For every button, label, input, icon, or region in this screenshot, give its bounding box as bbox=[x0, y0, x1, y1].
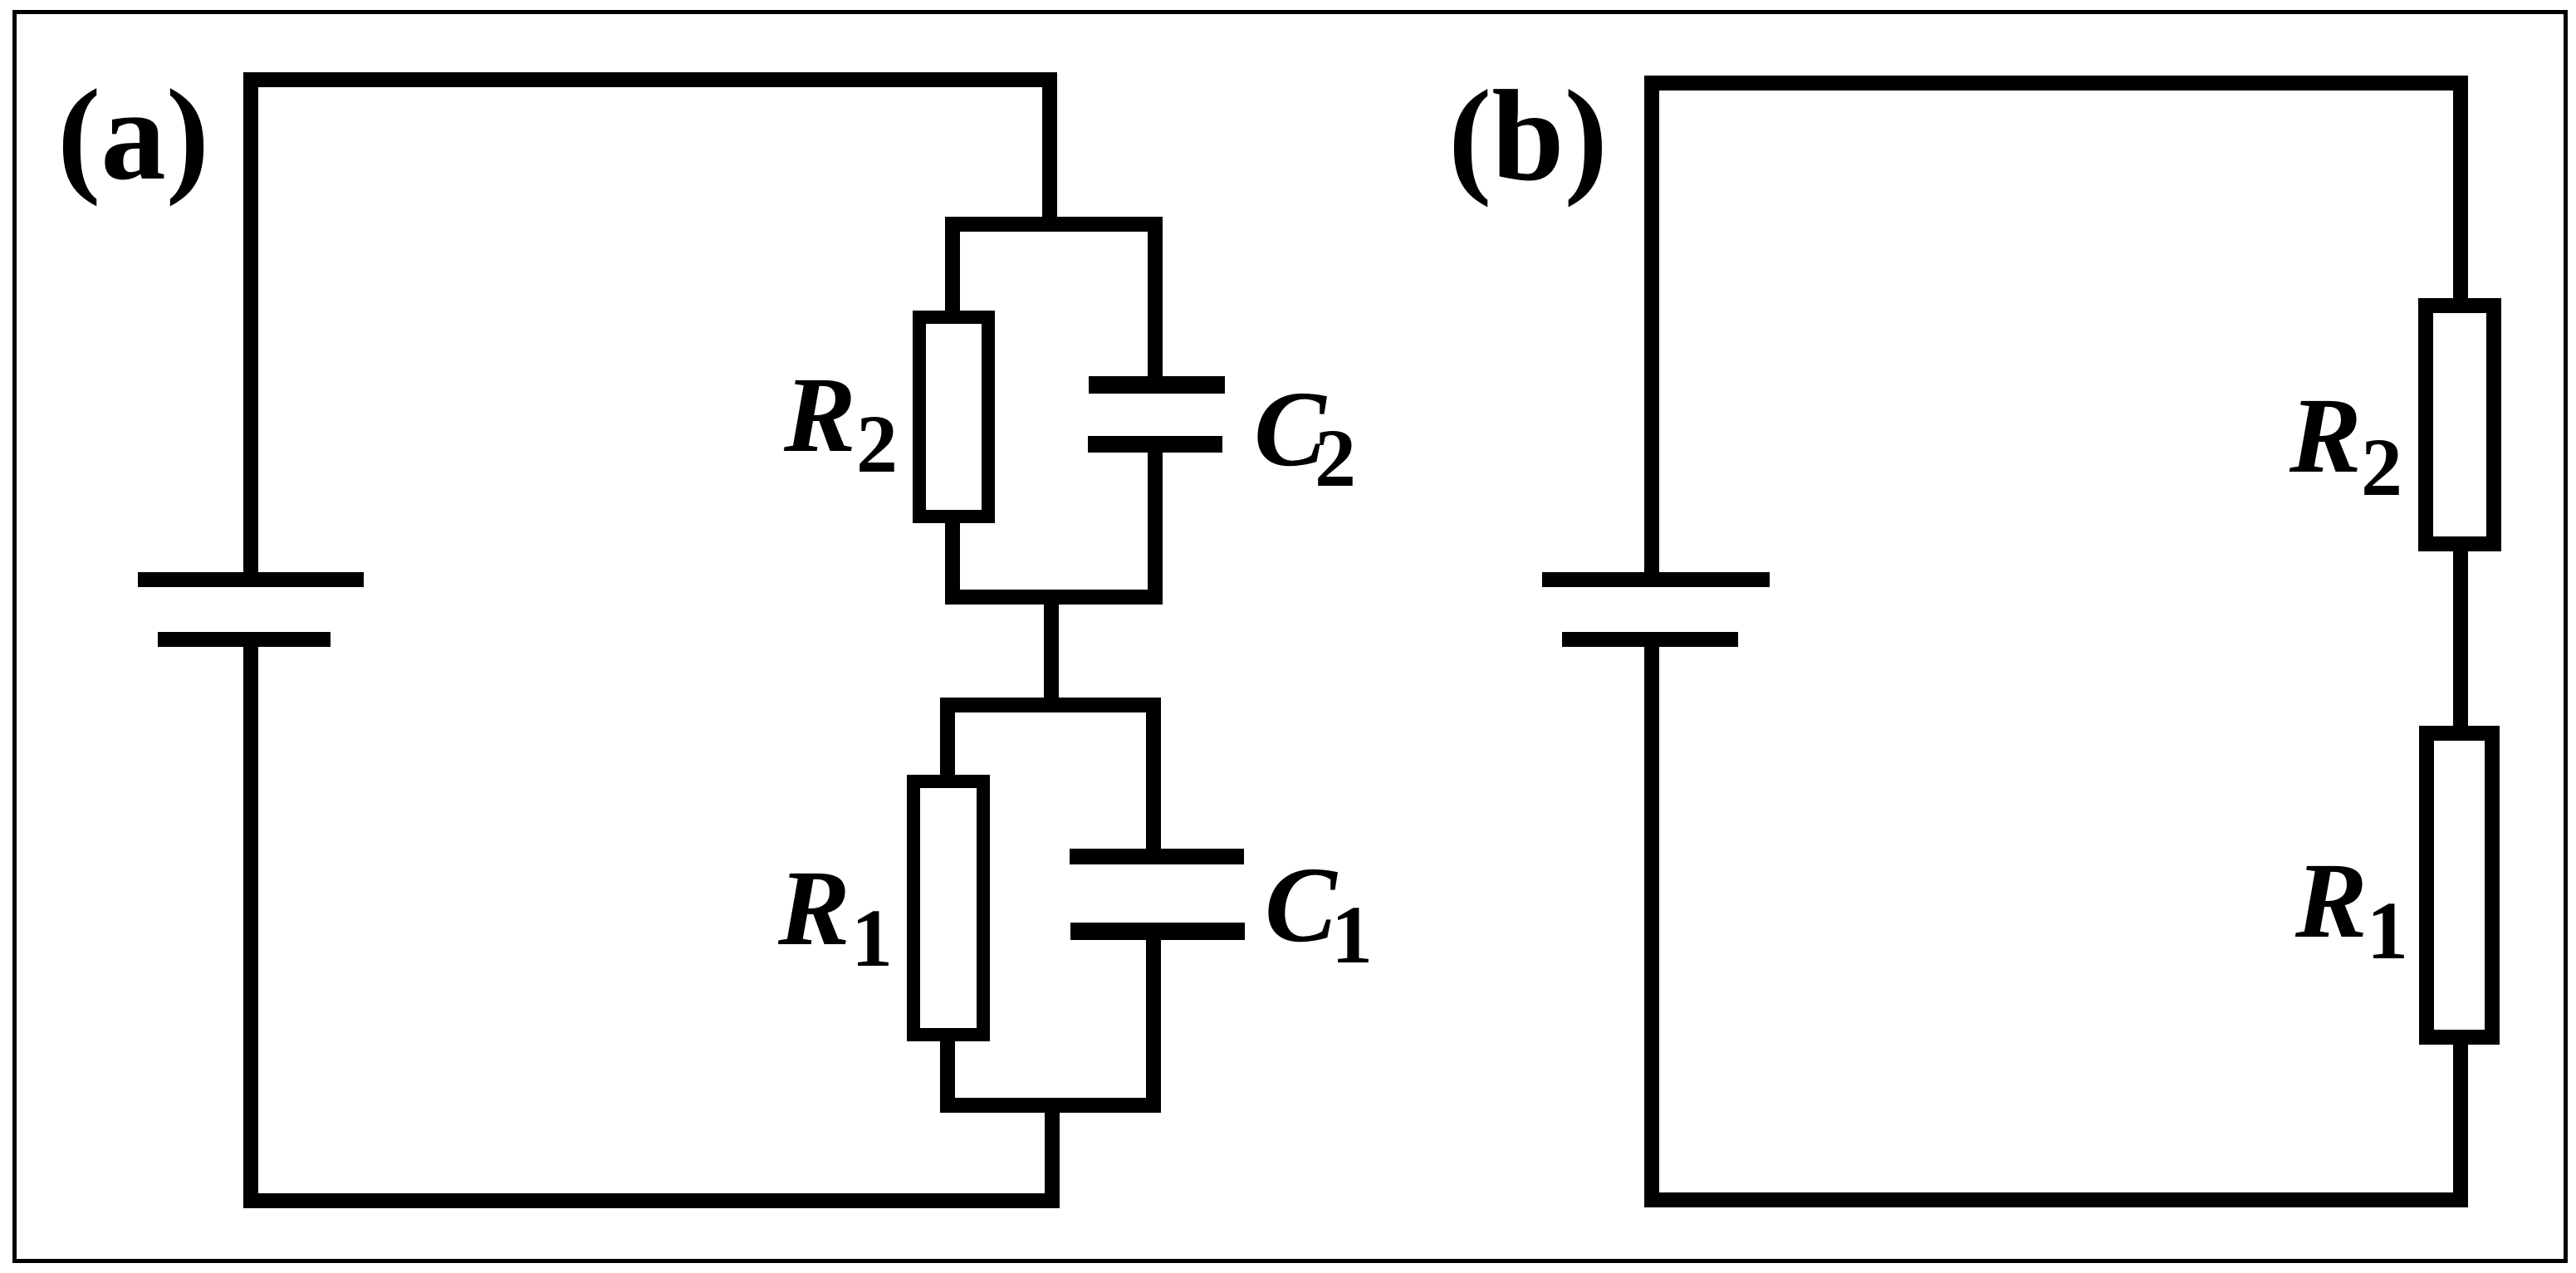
capacitor C1 top plate bbox=[1070, 849, 1244, 864]
battery BT2 short plate (negative) bbox=[1562, 632, 1738, 647]
resistor R1 (circuit b) bbox=[2427, 733, 2492, 1037]
wire: R1 bottom, along bottom of circuit (b), up to battery BT2 negative terminal bbox=[1652, 639, 2461, 1200]
svg-text:R: R bbox=[2294, 841, 2368, 961]
svg-text:(a): (a) bbox=[57, 62, 209, 207]
wire: capacitor C1 gap bbox=[1133, 864, 1174, 923]
wire: R1C1 block bottom, along bottom of circuit (a), up to battery BT1 negative terminal bbox=[251, 639, 1052, 1201]
battery BT1 long plate (positive) bbox=[138, 572, 364, 587]
svg-text:2: 2 bbox=[856, 398, 898, 490]
svg-text:2: 2 bbox=[1315, 412, 1356, 504]
svg-text:1: 1 bbox=[1331, 889, 1373, 981]
svg-text:R: R bbox=[777, 849, 850, 968]
wire: parallel block loop R1 / C1 bbox=[948, 705, 1153, 1105]
resistor R1 (circuit a) bbox=[913, 781, 983, 1035]
wire: battery BT2 positive terminal up, across top of circuit (b), down to resistor R2 bbox=[1652, 83, 2461, 580]
svg-text:C: C bbox=[1265, 845, 1338, 965]
wire: node between R2 and R1 (circuit b) bbox=[2453, 544, 2468, 733]
svg-text:1: 1 bbox=[2367, 884, 2408, 977]
resistor R2 (circuit a) bbox=[919, 317, 988, 517]
battery BT1 short plate (negative) bbox=[158, 632, 331, 647]
resistor R2 (circuit b) bbox=[2426, 306, 2494, 544]
capacitor C1 bottom plate bbox=[1070, 923, 1245, 940]
svg-text:(b): (b) bbox=[1448, 63, 1608, 208]
svg-text:R: R bbox=[2289, 376, 2362, 496]
battery BT2 long plate (positive) bbox=[1542, 572, 1770, 587]
svg-text:R: R bbox=[783, 355, 856, 475]
capacitor C2 top plate bbox=[1089, 376, 1225, 394]
wire: capacitor C2 gap bbox=[1134, 394, 1176, 436]
svg-text:2: 2 bbox=[2361, 421, 2402, 513]
wire: parallel block loop R2 / C2 bbox=[953, 224, 1155, 597]
wire: node between R2C2 block and R1C1 block bbox=[1044, 597, 1059, 705]
wire: battery BT1 positive terminal up, across top of circuit (a), down to R2/C2 block bbox=[251, 80, 1050, 580]
capacitor C2 bottom plate bbox=[1088, 436, 1222, 453]
svg-text:1: 1 bbox=[851, 892, 893, 984]
